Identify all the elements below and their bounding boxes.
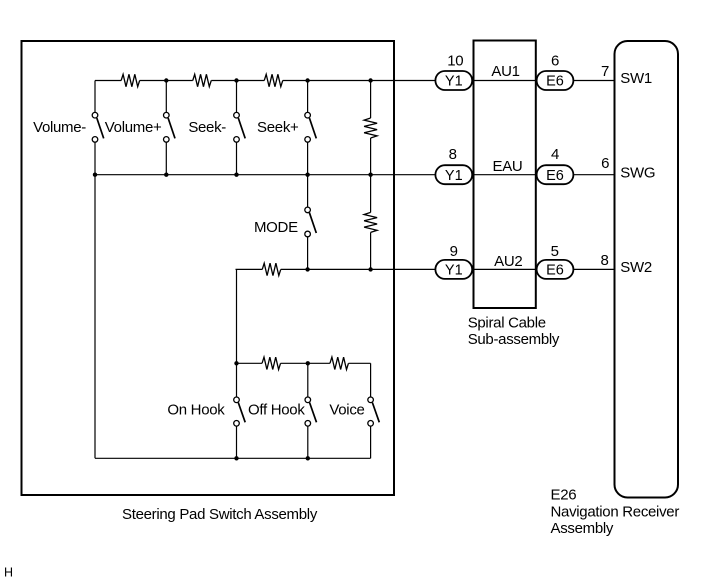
- junction: SWG row / Volume- branch: [93, 173, 97, 177]
- junction: SWG row / pull-up column: [368, 173, 372, 177]
- resistor between Volume+ and Seek- branches: [193, 74, 212, 86]
- svg-text:6: 6: [551, 52, 559, 69]
- wire: spiral cable AU2 internal: [472, 268, 536, 270]
- resistor between On Hook and Off Hook branches: [262, 357, 281, 369]
- wire: SWG row from Volume- branch to connector Y1 pin 8: [95, 174, 435, 176]
- wire: Volume- branch from top row to switch: [94, 81, 96, 113]
- svg-text:Seek-: Seek-: [188, 119, 226, 136]
- svg-text:Steering Pad Switch Assembly: Steering Pad Switch Assembly: [122, 506, 318, 523]
- svg-text:Voice: Voice: [329, 402, 364, 419]
- svg-text:Sub-assembly: Sub-assembly: [468, 331, 560, 348]
- wire: row 3 resistor to connector Y1 pin 9: [281, 268, 436, 270]
- switch Seek-: [234, 112, 246, 142]
- switch Seek+: [305, 112, 316, 142]
- wire: On Hook branch to switch: [236, 363, 238, 397]
- svg-text:Volume-: Volume-: [33, 119, 86, 136]
- wire: top row from Volume- branch to resistor 1: [95, 80, 121, 82]
- wire: Seek- branch from top row to switch: [236, 81, 238, 113]
- wire: pull-up column resistor to SWG row: [370, 138, 372, 175]
- svg-text:On Hook: On Hook: [167, 402, 225, 419]
- svg-text:10: 10: [447, 52, 463, 69]
- junction: hook rail / Off Hook branch: [306, 361, 310, 365]
- resistor between top row and SWG row: [364, 118, 377, 138]
- wire: Voice branch to switch: [370, 363, 372, 397]
- wire: MODE switch to row 3: [307, 237, 309, 270]
- wire: pull-up column second resistor to row 3: [370, 232, 372, 269]
- wire: Seek+ branch from top row to switch: [307, 81, 309, 113]
- svg-text:AU2: AU2: [494, 253, 522, 270]
- wire: Off Hook switch to bottom rail: [307, 426, 309, 458]
- wire: Off Hook branch to switch: [307, 363, 309, 397]
- wire: hook-switch top rail left segment: [237, 362, 263, 364]
- svg-text:6: 6: [601, 155, 609, 172]
- svg-text:E6: E6: [546, 263, 564, 279]
- connector Y1 pin 8 (EAU): [435, 165, 472, 184]
- svg-text:Y1: Y1: [445, 74, 463, 90]
- svg-text:Assembly: Assembly: [551, 520, 614, 537]
- wire: pull-up column SWG row to second resistor: [370, 175, 372, 213]
- wire: row 3 corner to resistor: [236, 268, 263, 270]
- wire: Volume+ switch to SWG row: [165, 142, 167, 175]
- wire: E6 pin 6 to navigation receiver SW1 pin 7: [573, 80, 614, 82]
- svg-text:Y1: Y1: [445, 168, 463, 184]
- svg-text:5: 5: [551, 243, 559, 260]
- wire: bottom return rail: [95, 457, 371, 459]
- wire: Volume- switch to SWG row: [94, 142, 96, 175]
- wire: vertical from row 3 down to hook-switch rail: [236, 269, 238, 363]
- wire: spiral cable AU1 internal: [472, 80, 536, 82]
- junction: top row / Seek+ branch: [305, 78, 309, 82]
- svg-text:MODE: MODE: [254, 219, 298, 236]
- switch Voice: [368, 397, 379, 426]
- svg-text:Navigation Receiver: Navigation Receiver: [551, 504, 680, 521]
- switch MODE: [305, 207, 316, 237]
- svg-text:8: 8: [449, 146, 457, 163]
- switch Volume-: [92, 112, 104, 142]
- junction: SWG row / Seek+ and MODE branch: [305, 173, 309, 177]
- wire: hook-switch top rail middle segment: [281, 362, 330, 364]
- connector E6 pin 4 (EAU): [537, 165, 574, 184]
- wire: hook-switch top rail right segment: [348, 362, 370, 364]
- resistor between row-3 corner and MODE branch: [262, 263, 281, 275]
- svg-text:Y1: Y1: [445, 263, 463, 279]
- svg-text:7: 7: [601, 63, 609, 80]
- connector Y1 pin 10 (AU1): [435, 71, 472, 90]
- wire: Seek+ switch to SWG row: [307, 142, 309, 175]
- junction: top row / pull-up column: [368, 78, 372, 82]
- junction: hook rail / On Hook branch: [234, 361, 238, 365]
- svg-text:Volume+: Volume+: [105, 119, 162, 136]
- junction: top row / Volume+ branch: [164, 78, 168, 82]
- svg-text:AU1: AU1: [491, 63, 519, 80]
- svg-text:Spiral Cable: Spiral Cable: [468, 315, 546, 332]
- resistor between Off Hook and Voice branches: [330, 357, 349, 369]
- svg-text:SWG: SWG: [620, 164, 655, 181]
- wire: top row resistor3 to connector Y1 pin 10: [283, 80, 436, 82]
- wire: top row resistor2 to resistor3: [211, 80, 264, 82]
- box: Spiral Cable Sub-assembly outline: [474, 41, 536, 309]
- svg-text:8: 8: [600, 252, 608, 269]
- svg-text:EAU: EAU: [493, 158, 523, 175]
- resistor between SWG row and row 3: [364, 212, 377, 232]
- junction: bottom rail / Off Hook branch: [306, 456, 310, 460]
- resistor between Seek- and Seek+ branches: [264, 74, 283, 86]
- wire: left vertical from SWG row down to bottom rail: [94, 175, 96, 459]
- junction: SWG row / Seek- branch: [234, 173, 238, 177]
- junction: top row / Seek- branch: [234, 78, 238, 82]
- wire: E6 pin 4 to navigation receiver SWG pin 6: [573, 174, 614, 176]
- switch Volume+: [164, 112, 176, 142]
- junction: SWG row / Volume+ branch: [164, 173, 168, 177]
- wire: pull-up column top row to resistor: [370, 81, 372, 119]
- svg-text:H: H: [4, 566, 13, 580]
- svg-text:SW1: SW1: [620, 70, 652, 87]
- svg-text:Seek+: Seek+: [257, 119, 299, 136]
- svg-text:E6: E6: [546, 168, 564, 184]
- box: Steering Pad Switch Assembly outline: [22, 41, 395, 495]
- connector E6 pin 6 (AU1): [537, 71, 574, 90]
- wire: On Hook switch to bottom rail: [236, 426, 238, 458]
- wire: Volume+ branch from top row to switch: [165, 81, 167, 113]
- wire: spiral cable EAU internal: [472, 174, 536, 176]
- svg-text:SW2: SW2: [620, 259, 652, 276]
- junction: row 3 / pull-up column: [368, 267, 372, 271]
- box: Navigation Receiver Assembly outline: [615, 41, 679, 498]
- wire: Voice switch to bottom rail: [370, 426, 372, 458]
- wire: Seek- switch to SWG row: [236, 142, 238, 175]
- svg-text:9: 9: [450, 243, 458, 260]
- switch On Hook: [234, 397, 246, 426]
- switch Off Hook: [305, 397, 317, 426]
- connector E6 pin 5 (AU2): [537, 260, 574, 279]
- resistor between Volume- and Volume+ branches: [121, 74, 139, 86]
- wire: MODE branch from SWG row to switch: [307, 175, 309, 207]
- wire: E6 pin 5 to navigation receiver SW2 pin 8: [573, 268, 614, 270]
- svg-text:Off Hook: Off Hook: [248, 402, 305, 419]
- wire: top row resistor1 to resistor2: [140, 80, 193, 82]
- svg-text:4: 4: [551, 146, 559, 163]
- svg-text:E6: E6: [546, 74, 564, 90]
- junction: row 3 / MODE branch: [305, 267, 309, 271]
- junction: bottom rail / On Hook branch: [234, 456, 238, 460]
- svg-text:E26: E26: [551, 486, 577, 503]
- connector Y1 pin 9 (AU2): [435, 260, 472, 279]
